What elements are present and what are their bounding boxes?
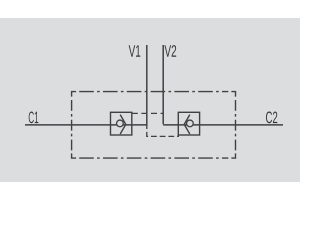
gray drawing panel — [0, 18, 300, 182]
enclosure dash-dot boundary: right edge — [235, 100, 237, 153]
enclosure dash-dot boundary: corner stubs — [72, 92, 236, 159]
port label V2 — [164, 45, 176, 57]
pilot line (dashed) from V1 node to right valve — [147, 125, 179, 136]
check valve right: seat chevron — [184, 115, 190, 134]
check valve left: ball — [117, 120, 124, 127]
enclosure dash-dot boundary: left edge — [71, 100, 73, 153]
check valve right: box — [178, 112, 199, 135]
wire: port line V1 — [146, 45, 148, 126]
port label V1 — [129, 45, 141, 56]
check valve left: seat chevron — [120, 115, 126, 134]
enclosure dash-dot boundary: top edge — [79, 91, 228, 93]
wire: main line V2 corner to C2 — [163, 45, 283, 125]
enclosure dash-dot boundary: bottom edge — [79, 157, 228, 159]
port label C1 — [29, 112, 39, 124]
pilot connection stub on right valve box — [177, 135, 179, 137]
wire: main line C1 to node V1 — [25, 124, 148, 126]
pilot line (dashed) from V2 line to left valve — [132, 112, 163, 114]
check valve left: box — [111, 112, 132, 135]
port label C2 — [266, 112, 277, 124]
check valve right: ball — [187, 120, 194, 127]
